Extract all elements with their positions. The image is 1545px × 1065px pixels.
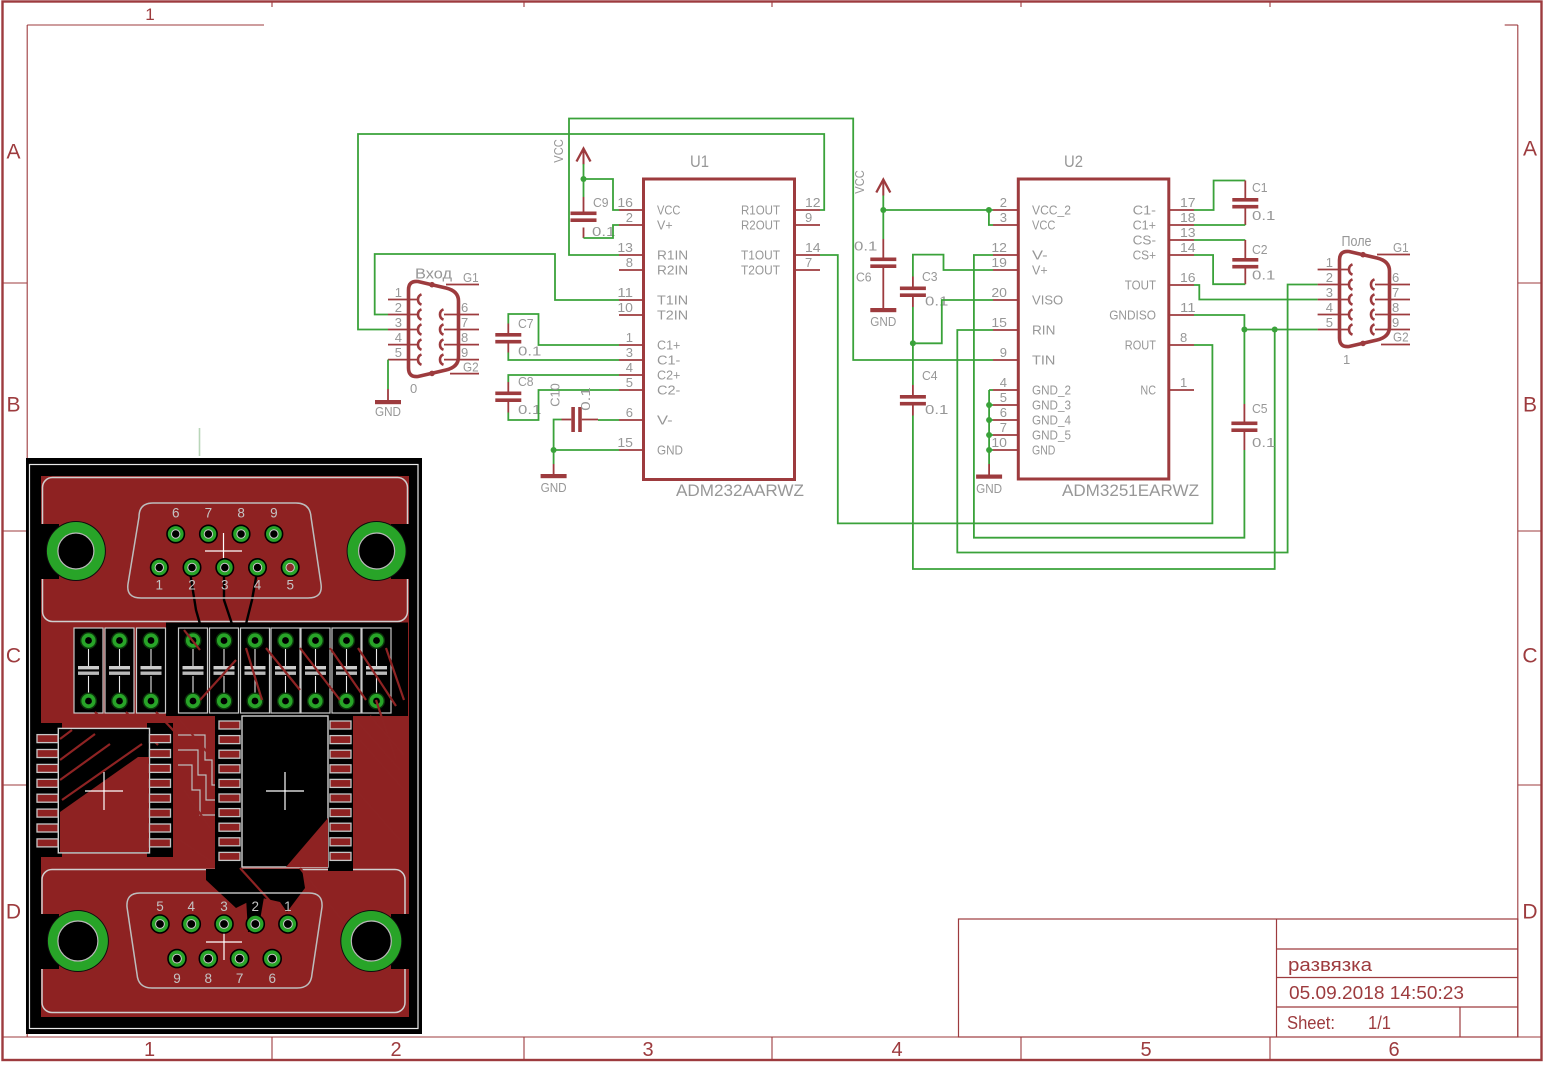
U2 pin 18 C1+ — [1133, 210, 1196, 233]
wire net Вход pin2 to U1 T1IN pin11 — [375, 254, 619, 315]
PCB top DB9 pad 4 — [249, 559, 266, 593]
svg-text:ROUT: ROUT — [1125, 338, 1156, 353]
C5 name label — [1252, 401, 1268, 416]
PCB IC1 footprint — [58, 728, 149, 853]
Вход pin 5 — [388, 345, 422, 365]
PCB capacitor footprint 3 — [137, 628, 166, 713]
PCB bottom DB9 pad 2 — [246, 899, 264, 933]
svg-text:VCC: VCC — [852, 170, 867, 193]
PCB IC2 pad R5 — [330, 779, 351, 787]
wire C7 bottom to U1 C1- pin3 — [508, 353, 619, 361]
svg-text:A: A — [1523, 138, 1537, 161]
PCB IC2 pad R9 — [330, 838, 351, 846]
title block — [959, 919, 1518, 1037]
svg-text:15: 15 — [991, 315, 1007, 330]
svg-text:GNDISO: GNDISO — [1109, 308, 1156, 323]
Вход pin G2 — [450, 360, 479, 375]
Вход pin 1 — [388, 285, 422, 305]
PCB capacitor footprint 7 — [271, 628, 300, 713]
capacitor C9 — [571, 197, 597, 238]
svg-text:10: 10 — [991, 435, 1007, 450]
svg-text:5: 5 — [156, 899, 164, 914]
svg-text:R2IN: R2IN — [657, 263, 688, 278]
PCB IC1 pad L8 — [37, 839, 58, 847]
wire junction down to C4 — [912, 343, 914, 385]
VCC label U2 — [852, 170, 867, 193]
svg-text:1: 1 — [284, 899, 292, 914]
C2 value 0.1 — [1252, 268, 1275, 283]
svg-text:VCC: VCC — [551, 139, 566, 162]
PCB IC2 pad L4 — [219, 765, 240, 773]
PCB bottom DB9 footprint silk — [127, 893, 322, 988]
wire U2 TOUT pin16 to Поле pin3 — [1194, 285, 1318, 300]
svg-text:C2+: C2+ — [657, 368, 680, 383]
svg-text:11: 11 — [1180, 300, 1196, 315]
PCB red traces in middle band — [95, 630, 404, 760]
PCB top DB9 cross mark — [205, 533, 242, 569]
svg-text:U1: U1 — [690, 152, 709, 171]
capacitor C8 — [495, 382, 521, 413]
Поле pin 6 — [1371, 270, 1410, 290]
svg-text:05.09.2018 14:50:23: 05.09.2018 14:50:23 — [1289, 982, 1464, 1003]
svg-text:C6: C6 — [856, 270, 872, 285]
PCB IC1 pad R8 — [150, 839, 171, 847]
PCB IC1 pad L4 — [37, 779, 58, 787]
svg-text:T1OUT: T1OUT — [741, 248, 780, 263]
svg-text:6: 6 — [626, 405, 633, 420]
capacitor C10 (horizontal) — [562, 407, 599, 432]
op-amp U2 ADM3251EARWZ box — [1018, 179, 1169, 479]
C7 name label — [518, 316, 534, 331]
svg-text:C1-: C1- — [1133, 203, 1156, 218]
Вход label — [415, 267, 453, 283]
PCB capacitor footprint 8 — [301, 628, 330, 713]
U2 pin 16 TOUT — [1125, 270, 1196, 293]
svg-text:C9: C9 — [593, 195, 609, 210]
PCB top DB9 pad 9 — [265, 506, 282, 543]
svg-text:2: 2 — [188, 578, 196, 593]
PCB capacitor footprint 2 — [105, 628, 134, 713]
U2 pin 11 GNDISO — [1109, 300, 1195, 323]
svg-text:1: 1 — [144, 1039, 155, 1061]
svg-text:C1-: C1- — [657, 353, 680, 368]
svg-text:9: 9 — [461, 345, 468, 360]
PCB IC1 pad R3 — [150, 764, 171, 772]
Вход pin 9 — [440, 345, 479, 365]
svg-text:D: D — [1522, 901, 1537, 924]
node GND chain junction y435 — [986, 432, 992, 438]
svg-text:D: D — [6, 901, 21, 924]
svg-text:19: 19 — [991, 255, 1007, 270]
C1 name label — [1252, 180, 1268, 195]
wire VCC junction to U1 pin16 — [584, 179, 620, 210]
Вход pin 7 — [440, 315, 479, 335]
svg-text:12: 12 — [991, 240, 1007, 255]
svg-text:GND_4: GND_4 — [1032, 413, 1071, 428]
svg-text:0.1: 0.1 — [925, 294, 948, 309]
PCB IC2 pad R8 — [330, 823, 351, 831]
C9 name label — [593, 195, 609, 210]
wire C2 bottom to U2 CS+ pin14 — [1194, 255, 1245, 284]
svg-text:2: 2 — [390, 1039, 401, 1061]
svg-text:Sheet:: Sheet: — [1287, 1012, 1335, 1033]
frame row labels right — [1522, 138, 1537, 924]
C10 name label (rotated) — [548, 383, 563, 406]
svg-text:3: 3 — [1326, 285, 1333, 300]
PCB top DB9 pad 3 — [216, 559, 233, 593]
svg-text:6: 6 — [1392, 270, 1399, 285]
svg-text:13: 13 — [1180, 225, 1196, 240]
PCB top DB9 pad 5 — [282, 559, 299, 593]
PCB mounting hole top right — [347, 521, 409, 581]
svg-text:GND: GND — [375, 404, 401, 419]
svg-text:1: 1 — [1326, 255, 1333, 270]
node VCC U2 junction — [880, 207, 886, 213]
svg-text:6: 6 — [461, 300, 468, 315]
svg-text:11: 11 — [617, 285, 633, 300]
svg-text:GND: GND — [976, 481, 1002, 496]
svg-text:7: 7 — [1000, 420, 1007, 435]
U1 pin 3 C1- — [619, 345, 680, 368]
title date text — [1289, 982, 1464, 1003]
PCB bottom connector zone silk outline — [42, 870, 405, 1013]
svg-text:8: 8 — [205, 971, 213, 986]
svg-text:V-: V- — [1032, 248, 1048, 263]
wire junction to U2 VISO pin20 — [913, 300, 993, 343]
U2 pin 12 V- — [991, 240, 1047, 263]
svg-text:3: 3 — [221, 578, 229, 593]
U2 value ADM3251EARWZ — [1062, 481, 1199, 500]
PCB IC2 pad L1 — [219, 721, 240, 729]
PCB top DB9 footprint silk — [128, 503, 321, 598]
C2 name label — [1252, 242, 1268, 257]
svg-text:GND_3: GND_3 — [1032, 398, 1071, 413]
svg-text:B: B — [6, 394, 20, 417]
wire VCC arrow U2 to junction — [882, 196, 884, 211]
svg-text:2: 2 — [1326, 270, 1333, 285]
U1 pin 8 R2IN — [619, 255, 688, 278]
svg-text:C10: C10 — [548, 383, 563, 406]
C4 name label — [922, 368, 938, 383]
PCB faint green artifact line — [199, 428, 201, 456]
U2 pin 3 VCC — [993, 210, 1055, 233]
svg-text:U2: U2 — [1064, 152, 1083, 171]
svg-text:GND: GND — [870, 314, 896, 329]
PCB IC2 pad R10 — [330, 852, 351, 860]
wire C4 bottom to GNDISO junction (long route) — [913, 330, 1275, 570]
svg-text:5: 5 — [626, 375, 633, 390]
C1 value 0.1 — [1252, 208, 1275, 223]
U2 pin 7 GND_5 — [993, 420, 1071, 443]
U1 name label — [690, 152, 709, 171]
PCB IC2 pad L8 — [219, 823, 240, 831]
svg-text:C1: C1 — [1252, 180, 1268, 195]
U2 pin 1 NC — [1140, 375, 1194, 398]
PCB top DB9 pad 6 — [167, 506, 184, 543]
svg-text:8: 8 — [237, 506, 245, 521]
op-amp U1 ADM232AARWZ box — [644, 179, 795, 480]
PCB black strips behind IC pads — [34, 712, 353, 871]
PCB IC1 pad L6 — [37, 809, 58, 817]
PCB bottom DB9 pad 6 — [263, 950, 281, 986]
Поле pin 5 — [1318, 315, 1353, 335]
PCB IC1 pad R5 — [150, 794, 171, 802]
PCB board copper area — [41, 476, 409, 1017]
Поле pin 9 — [1371, 315, 1410, 335]
node GND chain junction y405 — [986, 402, 992, 408]
Поле pin 8 — [1371, 300, 1410, 320]
svg-text:TIN: TIN — [1032, 353, 1055, 368]
wire C5 top to GNDISO junction — [1243, 330, 1245, 405]
wire VCC junction down to C9 — [583, 179, 585, 197]
PCB top DB9 pad 2 — [183, 559, 200, 593]
svg-text:G1: G1 — [1393, 240, 1409, 255]
U2 pin 19 V+ — [991, 255, 1047, 278]
PCB IC1 pad R7 — [150, 824, 171, 832]
svg-text:10: 10 — [617, 300, 633, 315]
PCB IC2 pad R4 — [330, 765, 351, 773]
node VCC U1 junction — [581, 176, 587, 182]
PCB IC2 pad L7 — [219, 809, 240, 817]
C5 value 0.1 — [1252, 435, 1275, 450]
U1 pin 11 T1IN — [617, 285, 688, 308]
frame column labels bottom — [144, 1039, 1400, 1061]
Поле pin G1 — [1377, 240, 1410, 255]
capacitor C1 — [1232, 181, 1258, 226]
PCB black pour above bottom DB9 — [206, 869, 305, 932]
svg-text:0.1: 0.1 — [578, 387, 593, 410]
PCB IC1 pad R2 — [150, 750, 171, 758]
node GNDISO junction C4 — [1272, 327, 1278, 333]
svg-text:V+: V+ — [657, 218, 673, 233]
Вход pin 6 — [440, 300, 479, 320]
svg-text:15: 15 — [617, 435, 633, 450]
PCB mounting hole bottom right — [340, 910, 409, 972]
PCB top DB9 pad 7 — [200, 506, 217, 543]
PCB IC2 pad R6 — [330, 794, 351, 802]
PCB IC1 pad R1 — [150, 735, 171, 743]
wire C9 bottom to U1 pin2 V+ — [584, 225, 620, 238]
U2 pin 4 GND_2 — [993, 375, 1071, 398]
wire GND junction to U1 GND pin15 — [554, 449, 619, 451]
svg-text:3: 3 — [395, 315, 402, 330]
U2 pin 5 GND_3 — [993, 390, 1071, 413]
svg-text:3: 3 — [220, 899, 228, 914]
PCB IC2 footprint — [242, 716, 328, 867]
PCB layout image background — [26, 458, 422, 1034]
svg-text:6: 6 — [268, 971, 276, 986]
PCB IC1 pad L1 — [37, 735, 58, 743]
ground GND under Вход — [375, 389, 401, 419]
U2 pin 8 ROUT — [1125, 330, 1194, 353]
PCB black lake middle band right — [166, 623, 408, 717]
PCB IC1 pad L3 — [37, 764, 58, 772]
svg-text:C5: C5 — [1252, 401, 1268, 416]
PCB bottom DB9 cross mark — [206, 924, 242, 960]
U2 pin 13 CS- — [1133, 225, 1196, 248]
svg-text:3: 3 — [642, 1039, 653, 1061]
C9 value 0.1 — [592, 224, 615, 239]
svg-text:C: C — [1522, 645, 1537, 668]
svg-text:Вход: Вход — [415, 267, 453, 283]
svg-text:V+: V+ — [1032, 263, 1048, 278]
PCB black traces from top DB9 — [190, 572, 257, 624]
U1 pin 1 C1+ — [619, 330, 680, 353]
PCB IC2 pad L6 — [219, 794, 240, 802]
svg-text:8: 8 — [1180, 330, 1187, 345]
U1 value ADM232AARWZ — [676, 481, 804, 500]
svg-text:0.1: 0.1 — [854, 239, 877, 254]
VCC supply arrow U2 — [876, 180, 890, 196]
svg-text:V-: V- — [657, 413, 673, 428]
svg-text:1: 1 — [1343, 352, 1350, 367]
PCB bottom DB9 pad 4 — [182, 899, 200, 933]
svg-text:7: 7 — [461, 315, 468, 330]
PCB IC1 pad L5 — [37, 794, 58, 802]
svg-text:20: 20 — [991, 285, 1007, 300]
PCB top connector zone silk outline — [43, 478, 408, 622]
svg-text:3: 3 — [626, 345, 633, 360]
U1 pin 9 R2OUT — [741, 210, 820, 233]
wire C8 top to U1 C2+ pin4 — [508, 375, 619, 382]
C3 name label — [922, 269, 938, 284]
node VCC_2 junction — [986, 207, 992, 213]
PCB capacitor footprint 5 — [210, 628, 239, 713]
title text развязка — [1288, 954, 1373, 975]
svg-text:9: 9 — [1392, 315, 1399, 330]
wire U2 CS- pin13 to C2 top — [1194, 239, 1245, 241]
svg-text:14: 14 — [805, 240, 821, 255]
svg-text:14: 14 — [1180, 240, 1196, 255]
wire C1 bottom to U2 C1+ pin18 — [1194, 224, 1245, 226]
Поле pin 1 — [1318, 255, 1353, 275]
svg-text:17: 17 — [1180, 195, 1196, 210]
wire U2 V- pin12 to C5 bottom (long route) — [974, 255, 1245, 538]
svg-text:0: 0 — [410, 381, 417, 396]
svg-text:CS+: CS+ — [1133, 248, 1156, 263]
svg-text:C7: C7 — [518, 316, 534, 331]
Вход pin 2 — [388, 300, 422, 320]
PCB capacitor footprint 9 — [332, 628, 361, 713]
PCB capacitor footprint 1 — [74, 628, 103, 713]
svg-text:5: 5 — [1140, 1039, 1151, 1061]
U1 pin 10 T2IN — [617, 300, 688, 323]
U2 pin 20 VISO — [991, 285, 1063, 308]
PCB IC2 pad R7 — [330, 809, 351, 817]
wire VCC junction down to C6 — [882, 210, 884, 239]
svg-text:7: 7 — [805, 255, 812, 270]
svg-text:CS-: CS- — [1133, 233, 1156, 248]
svg-text:VISO: VISO — [1032, 293, 1063, 308]
svg-text:R2OUT: R2OUT — [741, 218, 780, 233]
svg-text:5: 5 — [1326, 315, 1333, 330]
PCB IC1 pad L2 — [37, 750, 58, 758]
Вход pin 8 — [440, 330, 479, 350]
svg-text:G2: G2 — [1393, 330, 1409, 345]
PCB bottom DB9 pad 5 — [151, 899, 169, 933]
svg-text:2: 2 — [1000, 195, 1007, 210]
svg-text:16: 16 — [1180, 270, 1196, 285]
capacitor C7 — [495, 324, 521, 353]
svg-text:T2OUT: T2OUT — [741, 263, 780, 278]
svg-text:Поле: Поле — [1342, 234, 1372, 250]
PCB IC1 pad R4 — [150, 779, 171, 787]
Вход pin 4 — [388, 330, 422, 350]
svg-text:C3: C3 — [922, 269, 938, 284]
C8 name label — [518, 374, 534, 389]
PCB top DB9 pad 1 — [151, 559, 168, 593]
svg-text:C2: C2 — [1252, 242, 1268, 257]
svg-text:1: 1 — [395, 285, 402, 300]
PCB IC2 pad L10 — [219, 852, 240, 860]
svg-text:VCC: VCC — [657, 203, 680, 218]
svg-text:9: 9 — [173, 971, 181, 986]
svg-text:7: 7 — [205, 506, 213, 521]
VCC supply arrow U1 — [577, 149, 591, 165]
wire net Вход pin3 to U1 R1OUT pin12 — [358, 134, 824, 330]
U1 pin 13 R1IN — [617, 240, 688, 263]
svg-text:13: 13 — [617, 240, 633, 255]
svg-text:C2-: C2- — [657, 383, 680, 398]
PCB capacitor footprint 6 — [241, 628, 270, 713]
PCB top DB9 pad 8 — [232, 506, 249, 543]
node VISO junction — [910, 340, 916, 346]
svg-text:8: 8 — [626, 255, 633, 270]
svg-text:C8: C8 — [518, 374, 534, 389]
svg-text:B: B — [1523, 394, 1537, 417]
svg-text:5: 5 — [1000, 390, 1007, 405]
U1 pin 2 V+ — [619, 210, 673, 233]
capacitor C2 — [1232, 240, 1258, 284]
C8 value 0.1 — [518, 402, 541, 417]
wire VCC junction to U2 pin2 VCC_2 — [883, 209, 993, 211]
svg-text:0.1: 0.1 — [1252, 208, 1275, 223]
svg-text:7: 7 — [1392, 285, 1399, 300]
U1 pin 15 GND — [617, 435, 683, 458]
PCB IC2 pad R2 — [330, 736, 351, 744]
svg-text:9: 9 — [1000, 345, 1007, 360]
svg-text:C4: C4 — [922, 368, 938, 383]
svg-text:9: 9 — [270, 506, 278, 521]
svg-text:2: 2 — [252, 899, 260, 914]
svg-text:VCC_2: VCC_2 — [1032, 203, 1071, 218]
svg-text:RIN: RIN — [1032, 323, 1055, 338]
svg-text:2: 2 — [626, 210, 633, 225]
svg-text:0.1: 0.1 — [1252, 435, 1275, 450]
frame column label top 1 — [145, 5, 154, 24]
svg-text:TOUT: TOUT — [1125, 278, 1156, 293]
U1 pin 4 C2+ — [619, 360, 680, 383]
C6 value 0.1 — [854, 239, 877, 254]
svg-text:T1IN: T1IN — [657, 293, 688, 308]
wire C7 top to U1 C1+ pin1 — [508, 314, 619, 345]
PCB IC1 pad L7 — [37, 824, 58, 832]
C6 name label — [856, 270, 872, 285]
Поле value 1 — [1343, 352, 1350, 367]
U2 pin 17 C1- — [1133, 195, 1196, 218]
PCB bottom DB9 pad 3 — [215, 899, 233, 933]
Поле pin 7 — [1371, 285, 1410, 305]
PCB IC2 pad R1 — [330, 721, 351, 729]
wire U2 ground pins chain — [989, 390, 993, 464]
svg-text:развязка: развязка — [1288, 954, 1373, 975]
svg-text:4: 4 — [626, 360, 633, 375]
wire C10 right to U1 V- pin6 — [598, 419, 619, 421]
ground GND under U2 — [976, 464, 1002, 496]
U2 pin 9 TIN — [993, 345, 1055, 368]
svg-text:GND: GND — [657, 443, 683, 458]
svg-text:GND_5: GND_5 — [1032, 428, 1071, 443]
